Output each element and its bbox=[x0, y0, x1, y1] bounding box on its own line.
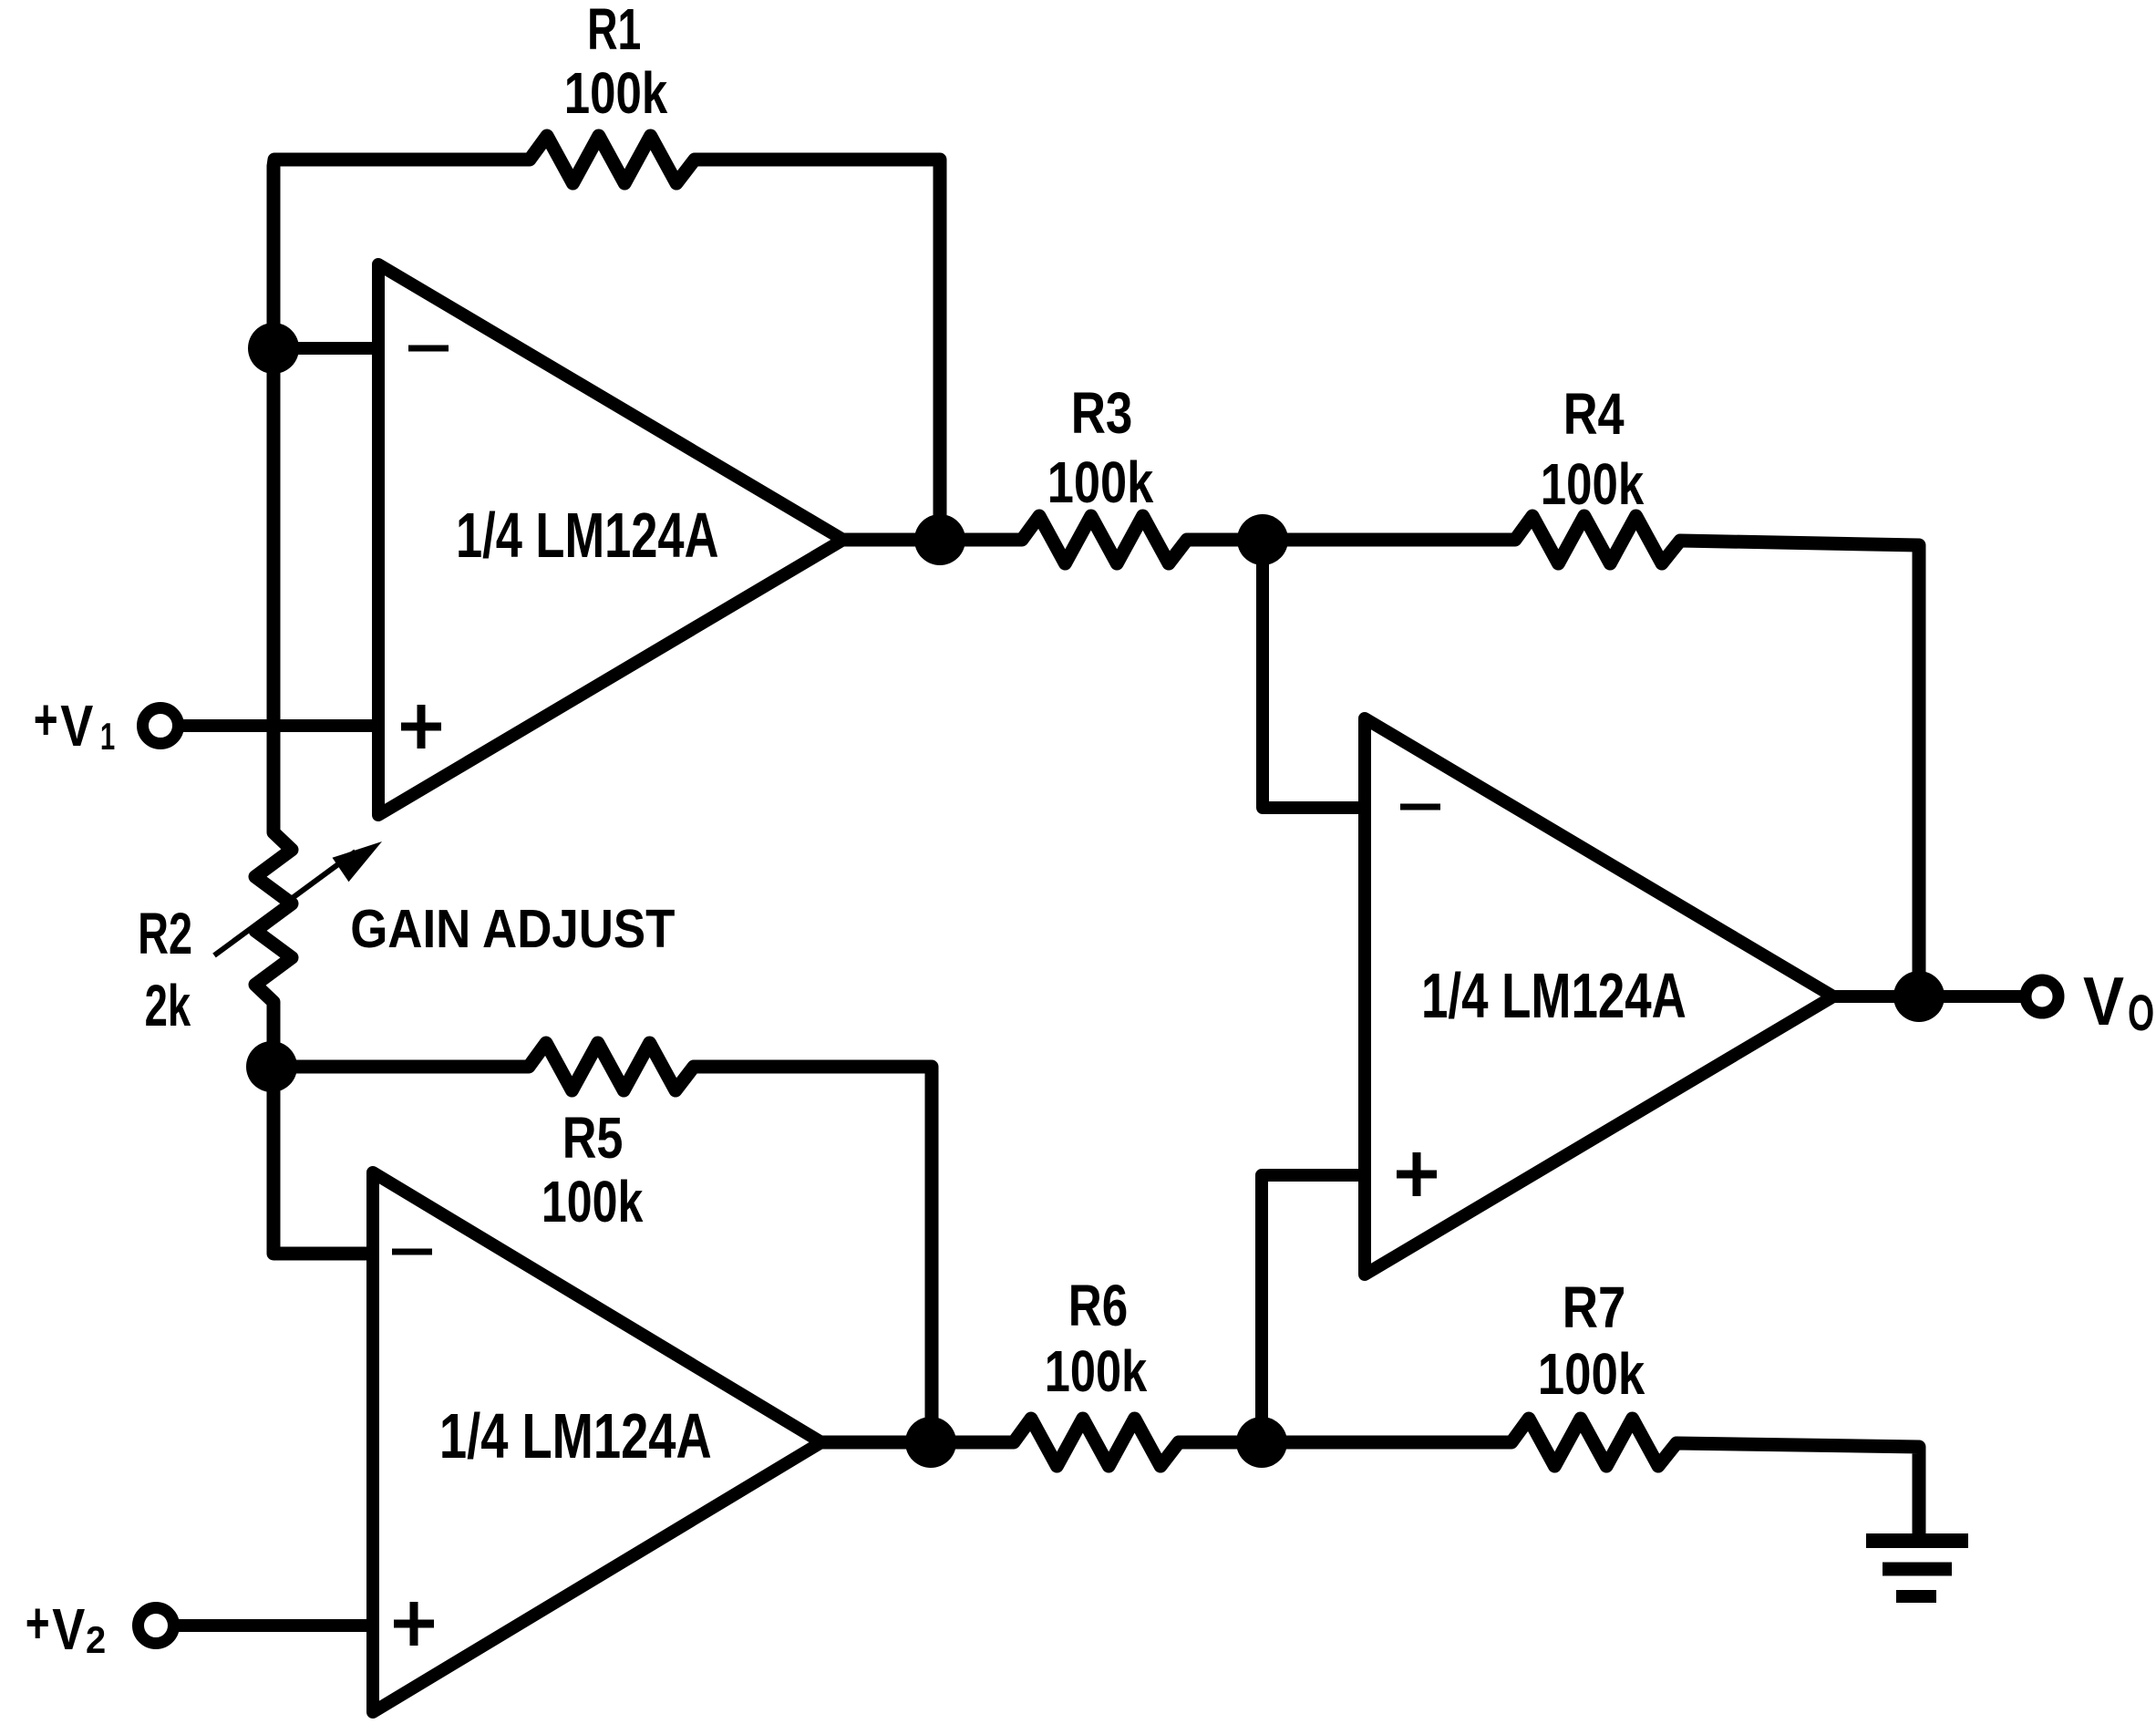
svg-text:R1: R1 bbox=[587, 0, 641, 62]
svg-text:2: 2 bbox=[86, 1618, 106, 1661]
svg-text:100k: 100k bbox=[564, 62, 668, 127]
svg-text:V: V bbox=[60, 693, 94, 759]
svg-text:R6: R6 bbox=[1068, 1275, 1128, 1339]
svg-text:1/4 LM124A: 1/4 LM124A bbox=[439, 1400, 712, 1471]
svg-text:100k: 100k bbox=[1538, 1342, 1645, 1407]
svg-text:1/4 LM124A: 1/4 LM124A bbox=[1421, 961, 1687, 1032]
svg-text:R7: R7 bbox=[1563, 1275, 1626, 1340]
svg-text:O: O bbox=[2128, 986, 2154, 1042]
svg-text:+: + bbox=[26, 1591, 50, 1656]
svg-text:R4: R4 bbox=[1563, 382, 1625, 447]
svg-text:R2: R2 bbox=[138, 901, 192, 966]
svg-text:100k: 100k bbox=[1045, 1339, 1148, 1404]
svg-text:V: V bbox=[52, 1596, 86, 1662]
svg-text:+: + bbox=[34, 687, 58, 752]
svg-text:2k: 2k bbox=[145, 973, 191, 1037]
svg-text:R5: R5 bbox=[562, 1106, 624, 1171]
svg-text:R3: R3 bbox=[1071, 381, 1133, 446]
svg-text:100k: 100k bbox=[1541, 453, 1645, 518]
svg-text:1/4 LM124A: 1/4 LM124A bbox=[456, 501, 718, 572]
svg-text:100k: 100k bbox=[542, 1170, 644, 1234]
svg-text:100k: 100k bbox=[1047, 450, 1154, 515]
svg-text:V: V bbox=[2083, 964, 2124, 1040]
svg-text:GAIN ADJUST: GAIN ADJUST bbox=[350, 898, 675, 958]
svg-text:1: 1 bbox=[100, 715, 115, 759]
